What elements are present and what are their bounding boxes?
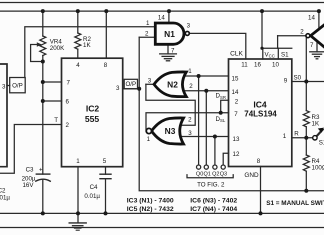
svg-text:Q3: Q3 bbox=[220, 172, 227, 178]
svg-text:8: 8 bbox=[257, 158, 261, 165]
svg-text:2: 2 bbox=[300, 29, 304, 36]
svg-text:11: 11 bbox=[241, 61, 248, 68]
svg-text:7: 7 bbox=[67, 79, 71, 86]
svg-text:TO FIG. 2: TO FIG. 2 bbox=[197, 181, 225, 188]
svg-text:T: T bbox=[54, 117, 58, 124]
svg-text:C3: C3 bbox=[26, 166, 34, 173]
svg-text:S1: S1 bbox=[319, 139, 324, 146]
svg-text:IC4: IC4 bbox=[253, 100, 267, 110]
svg-text:1K: 1K bbox=[312, 120, 320, 127]
svg-text:IC3 (N1) - 7400: IC3 (N1) - 7400 bbox=[127, 197, 174, 204]
svg-text:IC7 (N4) - 7404: IC7 (N4) - 7404 bbox=[190, 206, 237, 213]
svg-text:IC6 (N3) - 7402: IC6 (N3) - 7402 bbox=[190, 197, 237, 204]
svg-text:S0: S0 bbox=[294, 74, 302, 81]
svg-text:2: 2 bbox=[188, 116, 192, 123]
svg-text:+: + bbox=[39, 166, 43, 173]
svg-text:1: 1 bbox=[147, 136, 151, 143]
svg-text:2: 2 bbox=[189, 83, 193, 90]
svg-text:0.01µ: 0.01µ bbox=[84, 193, 100, 200]
svg-text:7: 7 bbox=[234, 111, 238, 118]
svg-text:2: 2 bbox=[66, 122, 70, 129]
svg-text:Q1: Q1 bbox=[204, 172, 211, 178]
svg-text:S1 = MANUAL SWITCH: S1 = MANUAL SWITCH bbox=[266, 200, 324, 207]
svg-text:14: 14 bbox=[232, 89, 239, 96]
svg-text:1: 1 bbox=[76, 158, 80, 165]
svg-text:IC2: IC2 bbox=[86, 104, 100, 114]
svg-text:2: 2 bbox=[235, 98, 239, 105]
svg-text:74LS194: 74LS194 bbox=[244, 109, 277, 118]
svg-text:100Ω: 100Ω bbox=[312, 165, 324, 172]
svg-text:1: 1 bbox=[283, 133, 287, 140]
svg-text:3: 3 bbox=[188, 130, 192, 137]
svg-text:Q2: Q2 bbox=[212, 172, 219, 178]
svg-text:N2: N2 bbox=[167, 79, 178, 89]
svg-text:15: 15 bbox=[232, 75, 239, 82]
svg-text:1: 1 bbox=[188, 68, 192, 75]
svg-text:16V: 16V bbox=[22, 182, 34, 189]
svg-text:O/P: O/P bbox=[12, 82, 23, 89]
svg-text:5: 5 bbox=[103, 158, 107, 165]
svg-text:2: 2 bbox=[145, 31, 149, 38]
svg-text:16: 16 bbox=[254, 61, 261, 68]
svg-text:14: 14 bbox=[158, 14, 165, 21]
svg-text:7: 7 bbox=[171, 48, 175, 55]
svg-text:0.01µ: 0.01µ bbox=[0, 195, 10, 202]
svg-text:VCC: VCC bbox=[265, 52, 275, 59]
svg-text:12: 12 bbox=[233, 151, 240, 158]
svg-text:6: 6 bbox=[66, 98, 70, 105]
svg-text:200K: 200K bbox=[50, 45, 65, 52]
svg-text:4: 4 bbox=[76, 62, 80, 69]
svg-text:Q0: Q0 bbox=[196, 172, 203, 178]
svg-text:N3: N3 bbox=[165, 126, 176, 136]
svg-text:7: 7 bbox=[310, 42, 314, 49]
svg-text:3: 3 bbox=[187, 23, 191, 30]
svg-text:14: 14 bbox=[308, 15, 315, 22]
svg-text:IC5 (N2) - 7432: IC5 (N2) - 7432 bbox=[127, 206, 174, 213]
svg-text:1: 1 bbox=[146, 20, 150, 27]
svg-text:1K: 1K bbox=[83, 42, 91, 49]
svg-text:8: 8 bbox=[104, 62, 108, 69]
svg-text:C4: C4 bbox=[90, 184, 98, 191]
svg-text:C2: C2 bbox=[0, 188, 6, 195]
svg-text:GND: GND bbox=[244, 172, 259, 179]
svg-text:3: 3 bbox=[148, 77, 152, 84]
svg-text:N1: N1 bbox=[164, 29, 175, 39]
svg-text:3: 3 bbox=[116, 85, 120, 92]
svg-text:R: R bbox=[294, 131, 299, 138]
svg-text:9: 9 bbox=[284, 78, 288, 85]
svg-text:555: 555 bbox=[85, 114, 100, 124]
svg-text:13: 13 bbox=[233, 136, 240, 143]
svg-text:O/P: O/P bbox=[125, 81, 136, 88]
svg-text:CLK: CLK bbox=[230, 51, 243, 58]
svg-text:3: 3 bbox=[2, 84, 6, 91]
svg-text:10: 10 bbox=[272, 61, 279, 68]
svg-text:S1: S1 bbox=[281, 52, 289, 59]
